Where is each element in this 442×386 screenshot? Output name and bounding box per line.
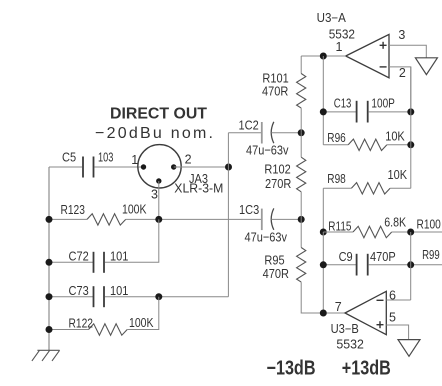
wire R98 row left bbox=[323, 187, 351, 189]
node bus/R122 bbox=[46, 326, 53, 333]
node bus/R123 bbox=[46, 216, 53, 223]
resistor R95 bbox=[297, 248, 306, 283]
resistor R122 bbox=[89, 324, 128, 335]
wire C13 left vertical bbox=[322, 56, 324, 145]
node C13 left bbox=[320, 108, 327, 115]
ground GND2 (triangle) bbox=[415, 58, 437, 75]
svg-text:2: 2 bbox=[399, 66, 406, 80]
wire C9 left vertical bbox=[322, 232, 324, 313]
resistor R96 bbox=[348, 139, 387, 150]
capacitor C9 bbox=[357, 254, 368, 276]
svg-text:10K: 10K bbox=[385, 129, 405, 144]
svg-text:C5: C5 bbox=[62, 150, 76, 165]
svg-text:−20dBu nom.: −20dBu nom. bbox=[95, 125, 213, 142]
wire right vertical R100-C9-pin6 bbox=[410, 232, 412, 300]
wire R102 top stub bbox=[300, 133, 302, 157]
op-amp input polarity marks U3-A bbox=[380, 42, 387, 67]
node C9 right bbox=[407, 261, 414, 268]
wire C5 to XLR pin1 bbox=[95, 166, 144, 168]
svg-text:103: 103 bbox=[98, 150, 113, 165]
wire pin6 bbox=[386, 299, 410, 301]
svg-text:470R: 470R bbox=[262, 83, 288, 98]
pin 3 dot bbox=[156, 178, 161, 183]
wire R98 row right bbox=[390, 187, 411, 189]
svg-text:100P: 100P bbox=[371, 96, 395, 111]
svg-text:DIRECT OUT: DIRECT OUT bbox=[110, 106, 207, 123]
capacitor C73 bbox=[94, 286, 105, 307]
svg-text:R98: R98 bbox=[327, 171, 346, 186]
svg-text:R102: R102 bbox=[264, 162, 290, 177]
svg-text:1: 1 bbox=[336, 40, 343, 54]
svg-text:101: 101 bbox=[110, 283, 128, 298]
node C13 right bbox=[407, 108, 414, 115]
wire R96 row right bbox=[387, 144, 411, 146]
resistor R102 bbox=[297, 157, 306, 192]
wire R102 bottom stub bbox=[300, 192, 302, 220]
wire R95 bottom to pin7 bbox=[301, 282, 345, 313]
wire R115 row left node bbox=[320, 229, 327, 236]
wire C73 row left bbox=[49, 296, 93, 298]
resistor R101 bbox=[297, 74, 306, 109]
svg-text:XLR-3-M: XLR-3-M bbox=[174, 181, 223, 196]
wire left bus vertical bbox=[48, 167, 50, 350]
wire C9 row left bbox=[323, 264, 356, 266]
pin 2 dot bbox=[171, 164, 176, 169]
resistor R98 bbox=[351, 183, 390, 194]
node pin2/1C2/C73 junction bbox=[225, 164, 232, 171]
capacitor 1C2 (polarized) bbox=[261, 122, 263, 144]
wire 1C2 right bbox=[271, 132, 301, 134]
wire U3-A output bbox=[323, 55, 345, 57]
wire R115 right to edge (R100) bbox=[392, 231, 442, 233]
wire XLR pin2 to node bbox=[174, 166, 229, 168]
wire 1C2 row left bbox=[228, 132, 261, 134]
svg-text:U3−A: U3−A bbox=[317, 11, 347, 25]
node output/R101/C13 bbox=[320, 53, 327, 60]
op-amp U3-A bbox=[346, 34, 389, 77]
svg-text:C72: C72 bbox=[69, 249, 89, 264]
svg-text:1C3: 1C3 bbox=[239, 202, 259, 217]
svg-text:3: 3 bbox=[398, 28, 405, 42]
node R102/R95/1C3 bbox=[298, 216, 305, 223]
pin 1 dot bbox=[141, 164, 146, 169]
wire C72 row left bbox=[49, 261, 93, 263]
svg-text:6: 6 bbox=[389, 289, 396, 303]
svg-text:1C2: 1C2 bbox=[239, 118, 259, 133]
op-amp U3-B bbox=[345, 291, 386, 334]
node C9 left bbox=[320, 261, 327, 268]
svg-text:5532: 5532 bbox=[336, 338, 364, 352]
op-amp input polarity marks U3-B bbox=[377, 300, 384, 328]
wire 1C3 right bbox=[271, 218, 301, 220]
svg-text:5: 5 bbox=[389, 311, 396, 325]
connector JA3 XLR circle bbox=[138, 145, 181, 188]
wire pin5 to ground bbox=[386, 325, 408, 340]
svg-text:R122: R122 bbox=[69, 316, 94, 331]
node R101/R102/1C2 bbox=[298, 129, 305, 136]
wire mid vertical 1C2-to-C73 bbox=[227, 133, 229, 297]
node pin7 bbox=[320, 310, 327, 317]
wire R101 bottom bbox=[300, 108, 302, 133]
wire R101 top to output node bbox=[301, 55, 323, 57]
svg-text:U3−B: U3−B bbox=[331, 322, 359, 336]
svg-text:6.8K: 6.8K bbox=[384, 215, 406, 230]
wire R115 left stub bbox=[323, 231, 353, 233]
svg-text:3: 3 bbox=[151, 188, 158, 202]
wire R122 right and up bbox=[127, 297, 159, 330]
svg-text:C13: C13 bbox=[334, 96, 352, 111]
ground GND3 (triangle) bbox=[398, 340, 420, 357]
wire C73 right to mid vertical bbox=[105, 296, 228, 298]
svg-text:R96: R96 bbox=[327, 130, 346, 145]
ground GND1 (hatched) bbox=[32, 350, 60, 361]
svg-text:R99: R99 bbox=[422, 247, 440, 262]
svg-text:R123: R123 bbox=[61, 202, 85, 217]
capacitor C5 bbox=[83, 157, 94, 178]
svg-text:100K: 100K bbox=[129, 315, 154, 330]
wire C13 row left bbox=[323, 111, 356, 113]
node pin3/R123/C72/1C3 bbox=[155, 216, 162, 223]
wire R101 top stub bbox=[300, 56, 302, 74]
wire right vertical pin2-R98 bbox=[410, 67, 412, 188]
wire R95 top stub bbox=[300, 219, 302, 247]
node bus/C73 bbox=[46, 293, 53, 300]
svg-text:47u−63v: 47u−63v bbox=[246, 143, 289, 158]
wire pin3 to ground bbox=[389, 45, 426, 57]
wire pin2 down bbox=[389, 67, 411, 112]
svg-text:1: 1 bbox=[131, 153, 138, 167]
wire XLR pin3 down bbox=[158, 181, 160, 219]
capacitor C72 bbox=[94, 252, 105, 273]
svg-text:7: 7 bbox=[335, 300, 342, 314]
svg-text:101: 101 bbox=[110, 249, 128, 264]
resistor R123 bbox=[87, 214, 126, 225]
node R115/R100 bbox=[407, 229, 414, 236]
svg-text:C73: C73 bbox=[69, 283, 89, 298]
svg-text:10K: 10K bbox=[388, 167, 408, 182]
svg-text:+13dB: +13dB bbox=[342, 358, 391, 380]
wire C9 row right to edge (R99) bbox=[368, 264, 442, 266]
wire R122 row left bbox=[49, 329, 89, 331]
svg-text:470P: 470P bbox=[370, 249, 396, 264]
svg-text:R100: R100 bbox=[417, 217, 441, 232]
wire C5 row left bbox=[49, 166, 82, 168]
capacitor 1C3 (polarized) bbox=[261, 209, 263, 231]
wire R123 row left bbox=[49, 218, 87, 220]
svg-text:270R: 270R bbox=[265, 176, 291, 191]
resistor R115 bbox=[353, 226, 392, 237]
wire R96 row left bbox=[323, 144, 348, 146]
capacitor C13 bbox=[357, 101, 368, 123]
node C73/R122 bbox=[155, 293, 162, 300]
wire C72 right and up bbox=[105, 219, 159, 262]
svg-text:470R: 470R bbox=[263, 266, 289, 281]
svg-text:2: 2 bbox=[185, 153, 192, 167]
wire R98 left down bbox=[322, 188, 324, 232]
wire C13 row right bbox=[368, 111, 411, 113]
svg-text:47u−63v: 47u−63v bbox=[245, 230, 288, 245]
svg-text:R115: R115 bbox=[328, 219, 351, 234]
svg-text:C9: C9 bbox=[339, 249, 353, 264]
svg-text:100K: 100K bbox=[122, 202, 147, 217]
node R96 right bbox=[407, 141, 414, 148]
node bus/C72 bbox=[46, 259, 53, 266]
svg-text:−13dB: −13dB bbox=[267, 358, 316, 380]
wire R123 to 1C3 row bbox=[126, 218, 262, 220]
